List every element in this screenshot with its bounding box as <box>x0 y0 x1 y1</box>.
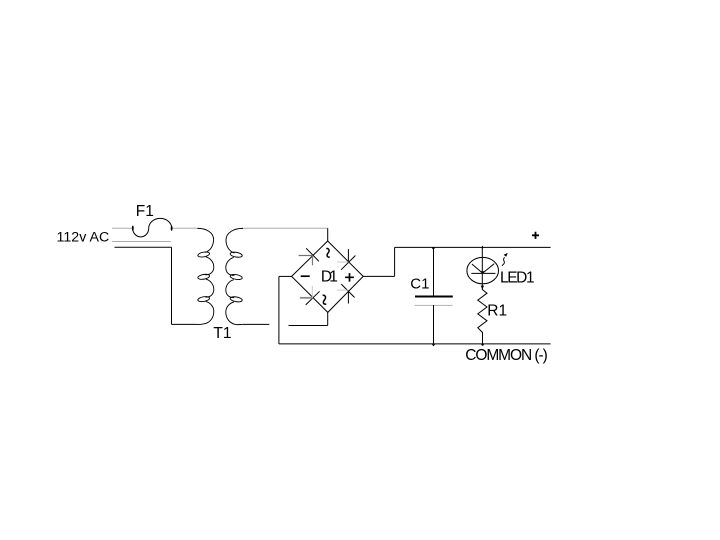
svg-text:F1: F1 <box>136 203 154 220</box>
svg-text:COMMON (-): COMMON (-) <box>465 347 548 364</box>
svg-text:T1: T1 <box>213 325 231 342</box>
svg-text:R1: R1 <box>487 302 507 319</box>
svg-text:LED1: LED1 <box>500 270 535 287</box>
svg-text:C1: C1 <box>410 275 429 292</box>
svg-text:D1: D1 <box>321 268 338 285</box>
svg-text:112v AC: 112v AC <box>57 230 110 246</box>
